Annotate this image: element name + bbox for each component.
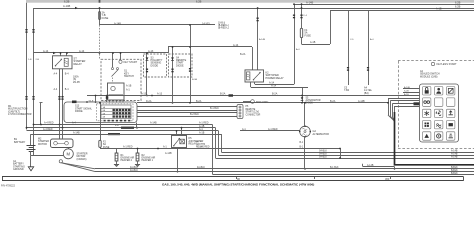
svg-text:BATTERY: BATTERY xyxy=(14,141,26,144)
switch S1 key switch dashed box xyxy=(101,59,141,100)
wire feed line right xyxy=(330,10,474,12)
wire fuse F4 bottom xyxy=(301,38,303,44)
wire riser x294 xyxy=(294,4,296,84)
wire drop x190 xyxy=(190,25,192,103)
wire into switch contact xyxy=(112,53,114,67)
svg-text:A-4: A-4 xyxy=(54,88,58,91)
fuse F4 symbol xyxy=(300,28,302,37)
alternator terminal top xyxy=(304,125,306,127)
junction x190/y47 xyxy=(189,46,191,48)
wire row y95.5 xyxy=(87,95,420,97)
svg-text:6.2B: 6.2B xyxy=(455,1,461,5)
connector on x190 xyxy=(189,68,191,69)
wire drop to relay K2 xyxy=(252,47,254,70)
wire R1 to ground xyxy=(116,161,118,164)
relay K1 starter relay box xyxy=(53,56,73,69)
svg-text:B-4: B-4 xyxy=(65,73,69,76)
funnel merge c xyxy=(392,117,394,121)
junction below S13 xyxy=(136,127,138,129)
svg-text:A-14B: A-14B xyxy=(165,152,172,155)
junction bus/fuse drop xyxy=(99,7,101,9)
wire solenoid to motor xyxy=(68,148,70,149)
wire dashed below F1 xyxy=(99,25,101,59)
pins of sub-box xyxy=(109,100,111,103)
fuse F2 symbol xyxy=(99,140,101,147)
svg-text:S4-BLK: S4-BLK xyxy=(319,154,327,156)
svg-text:A-14B: A-14B xyxy=(259,38,266,41)
icon cell r5c1 xyxy=(423,132,431,140)
junction alternator/y169 xyxy=(304,168,306,170)
wire K2 to riser xyxy=(255,84,294,86)
svg-text:RELAY: RELAY xyxy=(196,146,204,149)
svg-text:A-14B: A-14B xyxy=(451,153,458,156)
svg-text:AIR HTR: AIR HTR xyxy=(196,143,206,146)
svg-text:A-14B: A-14B xyxy=(451,150,458,153)
wire hanging x368 xyxy=(368,10,370,85)
svg-text:A-14B: A-14B xyxy=(367,164,374,167)
connector on left wire 1 xyxy=(25,29,27,30)
connector blob on row y134.1 xyxy=(108,133,120,135)
svg-text:GROUND: GROUND xyxy=(13,168,24,171)
alternator terminal right xyxy=(310,131,312,133)
wire long row y122 xyxy=(34,124,213,126)
svg-text:A-14B: A-14B xyxy=(306,1,313,5)
relay K75 contact xyxy=(174,139,180,146)
svg-text:2N-PK: 2N-PK xyxy=(73,81,80,84)
connector on S3 wire xyxy=(146,69,148,70)
diode S3 polarity sensing dashed box xyxy=(144,54,167,77)
wire drop x340 xyxy=(340,149,342,159)
svg-text:6.2B: 6.2B xyxy=(455,4,461,8)
svg-text:HEATER 2: HEATER 2 xyxy=(121,159,133,162)
wire battery negative xyxy=(30,151,32,156)
wire into K75 a xyxy=(176,131,178,136)
diode S5 alternator excite xyxy=(301,97,304,100)
svg-text:B-1 BLK: B-1 BLK xyxy=(330,167,339,169)
wire K2 bottom stub 2 xyxy=(250,82,252,87)
wire battery to motor xyxy=(31,155,63,157)
fuse F1 symbol xyxy=(99,12,101,20)
wire S13 out row3 xyxy=(137,112,237,114)
wire bottom row 2 xyxy=(95,171,474,173)
connector blob on S13 top edge xyxy=(72,101,77,104)
alternator G2 xyxy=(300,126,311,137)
module A2 input stubs xyxy=(403,88,420,90)
svg-text:S4-BLK: S4-BLK xyxy=(319,156,327,158)
wire heater feed row xyxy=(100,148,340,150)
svg-text:B-2 BLK: B-2 BLK xyxy=(190,113,199,116)
svg-text:17-PIN CONNECTOR: 17-PIN CONNECTOR xyxy=(8,113,32,116)
wire bottom row 1 xyxy=(95,168,474,170)
svg-text:A-1B: A-1B xyxy=(436,8,442,11)
svg-text:A-14: A-14 xyxy=(79,50,85,53)
svg-text:B-2A: B-2A xyxy=(192,78,197,81)
wire bus A-14B top xyxy=(34,8,474,10)
wire F2 out xyxy=(100,148,102,149)
svg-text:A-1B: A-1B xyxy=(404,93,409,96)
svg-text:M: M xyxy=(67,152,71,157)
svg-text:A-1B: A-1B xyxy=(199,131,205,134)
icon cell r3c1 xyxy=(423,109,431,117)
icon cell r2c3 xyxy=(447,98,455,106)
svg-text:DIODE: DIODE xyxy=(176,64,184,67)
svg-text:7-B4: 7-B4 xyxy=(344,89,350,92)
svg-text:363: 363 xyxy=(385,177,390,181)
wire alternator top xyxy=(304,103,306,126)
svg-text:4A-BLK: 4A-BLK xyxy=(130,166,138,169)
frame tick mid xyxy=(314,177,316,179)
svg-text:HEATER 1: HEATER 1 xyxy=(142,159,154,162)
wire A-14B mid xyxy=(100,24,216,26)
wire S13 out row2 xyxy=(137,110,237,112)
wire long row y133.5 xyxy=(31,134,222,136)
connector P5 shell xyxy=(237,105,243,119)
icon cell r1c3 xyxy=(447,87,455,95)
wire into S13 top 2 xyxy=(106,96,108,103)
svg-text:A-14B: A-14B xyxy=(404,86,410,89)
wire bus upper right xyxy=(294,4,474,6)
wire A-14 row y47 xyxy=(168,46,252,48)
svg-text:A-4: A-4 xyxy=(54,73,58,76)
svg-text:(CRANK): (CRANK) xyxy=(77,158,87,161)
alternator terminal bottom xyxy=(304,136,306,138)
svg-text:GAS, 190, 545, 640, 4WD (MANUA: GAS, 190, 545, 640, 4WD (MANUAL SHIFTING… xyxy=(162,183,314,187)
module A2 keypad panel xyxy=(420,84,459,142)
block ignition sub-box xyxy=(108,83,125,100)
svg-text:MOTOR: MOTOR xyxy=(38,143,47,146)
svg-text:B-1 BLK: B-1 BLK xyxy=(210,107,219,110)
motor M1 circle xyxy=(63,149,73,159)
svg-text:RELAY: RELAY xyxy=(74,62,83,66)
funnel merge b xyxy=(390,116,394,122)
svg-text:A-4: A-4 xyxy=(72,122,76,125)
svg-text:14-YEL: 14-YEL xyxy=(202,22,211,25)
junction y25 x190 xyxy=(189,24,191,26)
svg-text:S4-BLK: S4-BLK xyxy=(319,151,327,153)
module A2 sealed switch module dashed box xyxy=(398,60,474,62)
svg-text:A-14: A-14 xyxy=(43,50,49,53)
svg-text:A-1: A-1 xyxy=(242,128,246,131)
diode S3 symbol xyxy=(146,57,149,60)
wire S13 out row1 xyxy=(137,106,237,108)
funnel merge a xyxy=(388,115,395,121)
icon cell r5c2 xyxy=(435,132,443,140)
node key start indicator xyxy=(119,60,122,63)
svg-text:A-14B: A-14B xyxy=(150,122,157,125)
svg-text:A-14: A-14 xyxy=(233,44,239,47)
wire to remote start terminal xyxy=(243,101,251,103)
page background xyxy=(0,0,474,188)
wire diode S3 xyxy=(146,53,148,96)
wire into S13 top xyxy=(95,96,97,103)
svg-text:START (12V): START (12V) xyxy=(246,111,260,114)
node remote start terminal xyxy=(251,100,255,104)
top gray crop band xyxy=(26,0,474,3)
arrow on bus xyxy=(75,7,78,9)
wire into K1 pin 2 xyxy=(66,53,68,56)
connector 2 on left wire 1 xyxy=(25,96,27,97)
svg-text:CONNECTOR: CONNECTOR xyxy=(246,114,261,116)
svg-text:(B4): (B4) xyxy=(364,92,369,95)
svg-text:B-BLK: B-BLK xyxy=(451,170,458,172)
wire S13 out row4 xyxy=(137,116,237,118)
svg-text:D-2A: D-2A xyxy=(146,100,152,103)
connector on K1 out A xyxy=(58,96,60,97)
icon cell r4c1 xyxy=(423,121,431,129)
svg-text:A-13: A-13 xyxy=(141,93,147,96)
wire drop x41 xyxy=(40,103,42,125)
svg-text:4A-BLK: 4A-BLK xyxy=(130,169,138,172)
battery B1 symbol xyxy=(27,145,36,147)
wire left vertical 2 xyxy=(33,8,35,156)
wire into solenoid a xyxy=(59,125,61,140)
wire below S13 corner xyxy=(136,123,138,128)
module A2 funnel wires xyxy=(388,98,420,100)
icon cell r2c2 xyxy=(435,98,443,106)
resistor R1 engine air heater 2 xyxy=(115,153,118,161)
svg-text:S4-B: S4-B xyxy=(89,100,94,102)
connector blob on row y127.7 xyxy=(121,127,134,129)
svg-text:B-2A: B-2A xyxy=(330,100,336,103)
connector on left wire 2 xyxy=(32,29,34,30)
relay K75 air heater relay box xyxy=(172,136,187,148)
solenoid of starter motor xyxy=(51,139,74,148)
connector 2 on left wire 2 xyxy=(32,96,34,97)
wire A-14 row xyxy=(34,52,169,54)
icon cell r5c3 xyxy=(447,132,455,140)
junction K1A/y124.5 xyxy=(59,124,61,126)
icon cell r4c2 xyxy=(435,121,443,129)
junction riser/bus2 xyxy=(293,3,295,5)
svg-text:A-13: A-13 xyxy=(157,93,163,96)
svg-text:DIODE: DIODE xyxy=(306,103,314,105)
wire into K75 b xyxy=(181,128,183,136)
connector on K2 wire xyxy=(257,18,259,19)
wire battery positive xyxy=(30,134,32,145)
wire diode S4 xyxy=(172,47,174,103)
svg-text:A-14: A-14 xyxy=(271,85,277,88)
svg-text:A-1: A-1 xyxy=(126,89,130,92)
relay K2 switched power relay box xyxy=(245,70,264,82)
dashed link in S1 xyxy=(112,78,114,84)
svg-text:4A-BLK: 4A-BLK xyxy=(197,166,205,169)
svg-text:A-1 RED: A-1 RED xyxy=(268,128,278,131)
svg-text:MODULE (CAB): MODULE (CAB) xyxy=(420,75,438,78)
svg-text:DIODE: DIODE xyxy=(151,64,159,67)
switch blade xyxy=(112,70,119,77)
wire stub corner x363 xyxy=(362,164,364,167)
junction x99.5/y53 xyxy=(99,52,101,54)
wire battery to ground xyxy=(30,156,32,167)
svg-text:A-14B: A-14B xyxy=(63,4,70,8)
junction S3 to line xyxy=(146,95,148,97)
wire K2 to alternator excite xyxy=(251,87,308,89)
node motor terminal xyxy=(59,160,62,163)
junction heater row xyxy=(157,148,159,150)
wire long row y126 xyxy=(27,127,216,129)
diode S4 remote start dashed box xyxy=(169,54,193,77)
wire row y102.8 xyxy=(137,102,388,104)
frame bottom border xyxy=(2,176,464,178)
diode module S13 inner dashed box xyxy=(97,104,134,121)
wire A-14B segment xyxy=(363,166,395,168)
wire K1 out B xyxy=(62,69,64,128)
wire K2 bottom stub xyxy=(254,82,256,84)
svg-text:S-2B: S-2B xyxy=(404,90,409,92)
frame tick 363 xyxy=(390,177,392,179)
connector on riser x294 xyxy=(293,15,295,16)
wire into solenoid b xyxy=(62,128,64,139)
connector on K1 out B xyxy=(61,96,63,97)
wire F4 to corner xyxy=(302,44,331,46)
relay K1 contact xyxy=(56,60,62,66)
svg-text:POWER RELAY: POWER RELAY xyxy=(266,77,284,80)
svg-text:FUSE: FUSE xyxy=(102,17,109,20)
svg-text:SWITCH: SWITCH xyxy=(124,75,134,78)
svg-text:B-2A: B-2A xyxy=(240,53,246,56)
frame tick 90 xyxy=(236,177,238,179)
wire corner up x330 xyxy=(330,10,332,44)
wire motor fan-out 1 xyxy=(62,163,96,169)
ground G1 symbol xyxy=(28,167,33,171)
connector on F4 wire xyxy=(300,15,302,16)
wire excite diode drop xyxy=(302,87,304,103)
connector on x348 xyxy=(347,67,349,68)
svg-text:A-1B: A-1B xyxy=(126,85,132,88)
svg-text:1-B: 1-B xyxy=(28,59,32,61)
junction on S13 top edge 2 xyxy=(95,101,97,103)
svg-text:B-2A: B-2A xyxy=(196,100,202,103)
node keyless start xyxy=(431,62,434,65)
junction x41/y124.5 xyxy=(40,124,42,126)
svg-text:A-13: A-13 xyxy=(148,50,154,53)
icon cell r1c1 xyxy=(423,87,431,95)
wire long row y129.5 xyxy=(27,130,219,132)
wire motor fan-out 2 xyxy=(62,163,96,172)
svg-text:KEY START: KEY START xyxy=(124,61,138,64)
wire K1 out A xyxy=(59,69,61,125)
wire jog x168 xyxy=(168,47,170,53)
svg-text:KEYLESS START: KEYLESS START xyxy=(437,63,458,66)
wire R2 drop xyxy=(137,149,139,154)
svg-text:A-1: A-1 xyxy=(163,146,167,149)
icon cell r2c1 xyxy=(423,98,431,106)
svg-text:A-4 RED: A-4 RED xyxy=(43,128,53,131)
diode S4 symbol xyxy=(171,57,174,60)
connector on S4 wire xyxy=(171,69,173,70)
connector on x368 xyxy=(367,67,369,68)
wire R2 to ground xyxy=(137,161,139,164)
junction rowB/funnel xyxy=(387,102,389,104)
svg-text:A-14B: A-14B xyxy=(358,100,365,103)
pins of S13 below table xyxy=(104,120,106,122)
junction bus/K2 wire xyxy=(257,7,259,9)
svg-text:(B-RED-L): (B-RED-L) xyxy=(218,28,229,30)
svg-text:6.2B: 6.2B xyxy=(64,0,70,3)
svg-text:B-4: B-4 xyxy=(65,88,69,91)
diode module S13 outer box xyxy=(64,102,137,123)
svg-text:2-B: 2-B xyxy=(115,125,119,127)
icon cell r3c3 xyxy=(447,109,455,117)
svg-text:A-14B: A-14B xyxy=(114,22,121,25)
svg-text:A-1 RED: A-1 RED xyxy=(123,146,133,149)
svg-text:2-B: 2-B xyxy=(36,59,40,61)
junction S4 to line xyxy=(172,102,174,104)
svg-text:REMOTE: REMOTE xyxy=(246,109,256,111)
svg-text:B-2A: B-2A xyxy=(220,93,226,96)
icon cell r3c2 xyxy=(435,109,443,117)
svg-text:B-BLK: B-BLK xyxy=(451,173,458,175)
junction x190/y102.8 xyxy=(189,102,191,104)
wire fuse drop xyxy=(99,8,101,25)
wire to alternator xyxy=(240,130,300,132)
switch S1 contacts xyxy=(112,68,114,70)
arrow y53 xyxy=(53,52,56,54)
svg-text:ALTERNATOR: ALTERNATOR xyxy=(306,99,321,102)
svg-text:A-1B: A-1B xyxy=(310,41,316,44)
wire link to row y169 xyxy=(394,167,396,169)
svg-text:B-BLK: B-BLK xyxy=(451,167,458,169)
svg-text:A-4 RED: A-4 RED xyxy=(44,122,54,125)
resistor R2 engine air heater 1 xyxy=(136,153,139,161)
wire bus to K2 xyxy=(257,8,259,70)
junction K1B/y127.7 xyxy=(62,127,64,129)
ground below R2 xyxy=(135,164,140,166)
wire into key switch xyxy=(120,53,122,60)
junction y95.5 x152 xyxy=(151,95,153,97)
wire fuse F4 top xyxy=(301,4,303,28)
wire K75 to ground row xyxy=(177,148,179,172)
ground below R1 xyxy=(114,164,119,166)
connector stub top x41 xyxy=(40,102,43,104)
wire fuse F2 drop xyxy=(100,103,102,141)
wire left vertical 1 xyxy=(26,3,28,130)
svg-text:6.2B: 6.2B xyxy=(196,0,202,3)
svg-text:DIODE: DIODE xyxy=(75,110,83,113)
svg-text:ALTERNATOR: ALTERNATOR xyxy=(313,133,330,136)
wire alternator ground xyxy=(304,137,306,169)
junction x394/y169 xyxy=(394,168,396,170)
diode module S13 pin table xyxy=(101,105,131,119)
junction on S13 top edge xyxy=(86,101,88,103)
wire R1 drop xyxy=(116,149,118,154)
wire hanging x348 xyxy=(348,10,350,85)
alternator terminal left xyxy=(299,131,301,133)
svg-text:P/N 4709222: P/N 4709222 xyxy=(1,184,16,187)
relay K2 contact xyxy=(254,73,261,80)
wire thick harness to right xyxy=(395,112,474,165)
icon cell r1c2 xyxy=(435,87,443,95)
wire into K1 pin 1 xyxy=(60,53,62,56)
svg-text:REM START: REM START xyxy=(256,101,269,104)
svg-text:A-14B: A-14B xyxy=(451,155,458,158)
svg-text:B-2A: B-2A xyxy=(272,93,278,96)
svg-text:A-14B: A-14B xyxy=(73,131,80,134)
svg-text:FUSE: FUSE xyxy=(305,34,312,37)
icon cell r4c3 xyxy=(447,121,455,129)
